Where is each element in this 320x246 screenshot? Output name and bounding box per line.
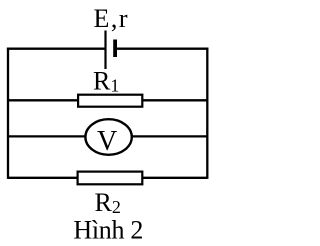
wire top segment left of battery (7, 48, 106, 50)
wire left branch (7, 48, 9, 179)
wire V branch left (8, 135, 86, 137)
svg-text:Hình 2: Hình 2 (73, 215, 143, 244)
wire R2 branch left (bottom) (8, 177, 79, 179)
svg-text:E,r: E,r (94, 4, 130, 33)
voltmeter V (85, 119, 131, 155)
wire R2 branch right (bottom) (142, 177, 207, 179)
wire R1 branch left (8, 99, 79, 101)
wire right branch (206, 48, 208, 179)
wire top segment right of battery (115, 48, 208, 50)
resistor R1 (78, 95, 142, 107)
wire V branch right (131, 135, 207, 137)
wire R1 branch right (142, 99, 207, 101)
battery E,r (106, 31, 116, 70)
svg-text:V: V (97, 126, 117, 157)
resistor R2 (78, 172, 143, 185)
